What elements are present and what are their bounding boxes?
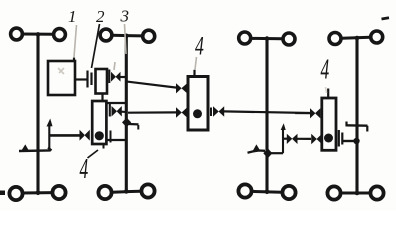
drive shaft beam 2	[125, 36, 128, 192]
engine output shaft	[75, 78, 87, 80]
axle 4 bottom	[341, 192, 370, 195]
wheel top axle2 left	[100, 29, 112, 41]
drive shaft beam 3	[265, 39, 268, 193]
control arrow vertical left	[48, 126, 50, 151]
coupling tick a	[86, 71, 88, 88]
line pump1 to beam2	[120, 76, 127, 78]
svg-text:3: 3	[120, 7, 130, 26]
slant arrow beam3	[248, 151, 266, 153]
valve bowtie pump2 mid	[112, 106, 122, 117]
pump 2 body	[96, 69, 108, 94]
leader line label 4 lower-left	[88, 150, 99, 158]
line valve to motor lower-left	[50, 134, 80, 137]
valve bowtie pump1 output	[111, 72, 121, 82]
junction blob beam4 bottom T	[355, 191, 360, 196]
junction blob beam3 bottom T	[265, 190, 270, 195]
wheel bottom axle1 left	[9, 187, 22, 200]
junction blob beam1 bottom T	[36, 191, 41, 196]
engine box top tick	[73, 58, 75, 62]
wheel top axle4 right	[371, 31, 383, 43]
edge artifact bottom left	[0, 191, 5, 196]
tick below motor ll	[103, 145, 105, 149]
svg-text:2: 2	[96, 7, 105, 26]
engine box 1	[48, 61, 75, 95]
leader line label 1 faint	[74, 25, 77, 57]
junction dot beam3	[263, 148, 272, 158]
coupling right motor tick a	[338, 130, 340, 147]
valve bowtie motor ll input	[80, 130, 90, 141]
brake symbol beam2 bar	[129, 123, 139, 126]
junction blob beam4 top T	[355, 36, 360, 41]
coupling right motor tick b	[341, 133, 343, 145]
wheel bottom axle3 right	[282, 186, 295, 199]
junction dot beam2	[122, 118, 131, 128]
line beam2 to central motor top	[127, 82, 177, 88]
leader line label 3 faint	[125, 24, 127, 54]
wheel bottom axle1 right	[52, 186, 65, 199]
line right motor to beam4	[342, 140, 356, 142]
wheel top axle1 inner	[54, 29, 66, 41]
leader line label 2	[92, 24, 100, 68]
line pump2 top to beam2	[106, 102, 127, 104]
drive shaft beam 4	[355, 38, 358, 193]
coupling tick b	[90, 73, 92, 86]
valve bowtie central right	[213, 106, 224, 117]
svg-text:4: 4	[321, 54, 330, 85]
valve bowtie right group a	[287, 134, 298, 144]
smudge above valve pump1	[114, 62, 115, 70]
wheel bottom axle2 left	[98, 186, 111, 199]
arrowhead control right group	[281, 123, 286, 130]
motor 4 lower-left body	[92, 101, 106, 144]
line junction to vertical right group	[269, 152, 283, 154]
axle 3 top	[252, 37, 282, 40]
line between right valves	[298, 138, 312, 140]
junction blob beam2 top T	[124, 34, 129, 39]
valve bowtie right group b	[311, 134, 322, 144]
vertical control line right group	[282, 127, 284, 153]
coupling tick central right	[210, 108, 212, 117]
dot central motor	[193, 109, 202, 118]
stub pump1 down	[101, 94, 103, 102]
axle 1 bottom	[22, 191, 53, 194]
leader tick label 4 right	[327, 89, 329, 99]
junction blob beam3 top T	[265, 36, 270, 41]
dot right motor	[324, 134, 333, 143]
wheel top axle3 right	[283, 33, 295, 45]
wheel bottom axle3 left	[238, 184, 251, 197]
central motor leader tick	[193, 70, 195, 76]
valve bowtie right motor top	[310, 108, 320, 118]
svg-text:1: 1	[68, 7, 77, 26]
line central motor to right	[224, 111, 310, 113]
arrowhead control left	[47, 119, 53, 127]
line vertical to valve right group	[283, 138, 287, 140]
svg-text:4: 4	[80, 154, 89, 185]
wheel top axle2 right	[143, 30, 155, 42]
smudge engine box	[58, 68, 64, 74]
arrow tip control lower-left	[21, 144, 29, 151]
valve bowtie central bottom-left	[176, 107, 187, 118]
brake symbol beam4 bar	[346, 124, 368, 127]
junction blob beam2 bottom T	[124, 189, 129, 194]
wheel bottom axle4 left	[327, 186, 340, 199]
axle 2 top	[112, 34, 142, 38]
dash mark top right	[382, 18, 390, 19]
dot motor lower-left	[95, 131, 104, 140]
wheel bottom axle4 right	[370, 186, 383, 199]
control hook up	[48, 148, 52, 151]
axle 4 top	[342, 37, 370, 38]
junction dot beam4 coupling	[353, 138, 359, 144]
brake symbol beam2 hook	[137, 125, 139, 130]
brake symbol beam4 hook	[347, 122, 368, 132]
wheel bottom axle2 right	[141, 184, 154, 197]
line motor ll to beam2	[107, 139, 126, 141]
wheel top axle4 left	[329, 33, 341, 45]
svg-text:4: 4	[195, 31, 204, 60]
axle 1 top	[22, 33, 54, 36]
central motor 4 body	[188, 77, 208, 131]
control line lower crossing beam1	[19, 149, 51, 152]
right motor 4 body	[322, 98, 336, 150]
wheel top axle3 left	[239, 32, 251, 44]
axle 2 bottom	[112, 191, 140, 192]
valve bowtie central top-left	[176, 83, 187, 93]
line pump2 mid to beam2	[110, 103, 127, 117]
wheel top-left outer	[11, 28, 23, 40]
drive shaft beam 1	[36, 34, 39, 195]
coupling motor ll right tick	[110, 131, 112, 143]
slant arrowhead beam3	[253, 144, 260, 150]
pump output tick	[108, 70, 110, 84]
leader line label 4 center faint	[195, 57, 197, 70]
axle 3 bottom	[252, 190, 282, 194]
line beam2 to central motor bottom	[128, 111, 177, 113]
leader line label 4 right faint	[326, 87, 327, 93]
junction blob beam1 top T	[36, 32, 41, 37]
